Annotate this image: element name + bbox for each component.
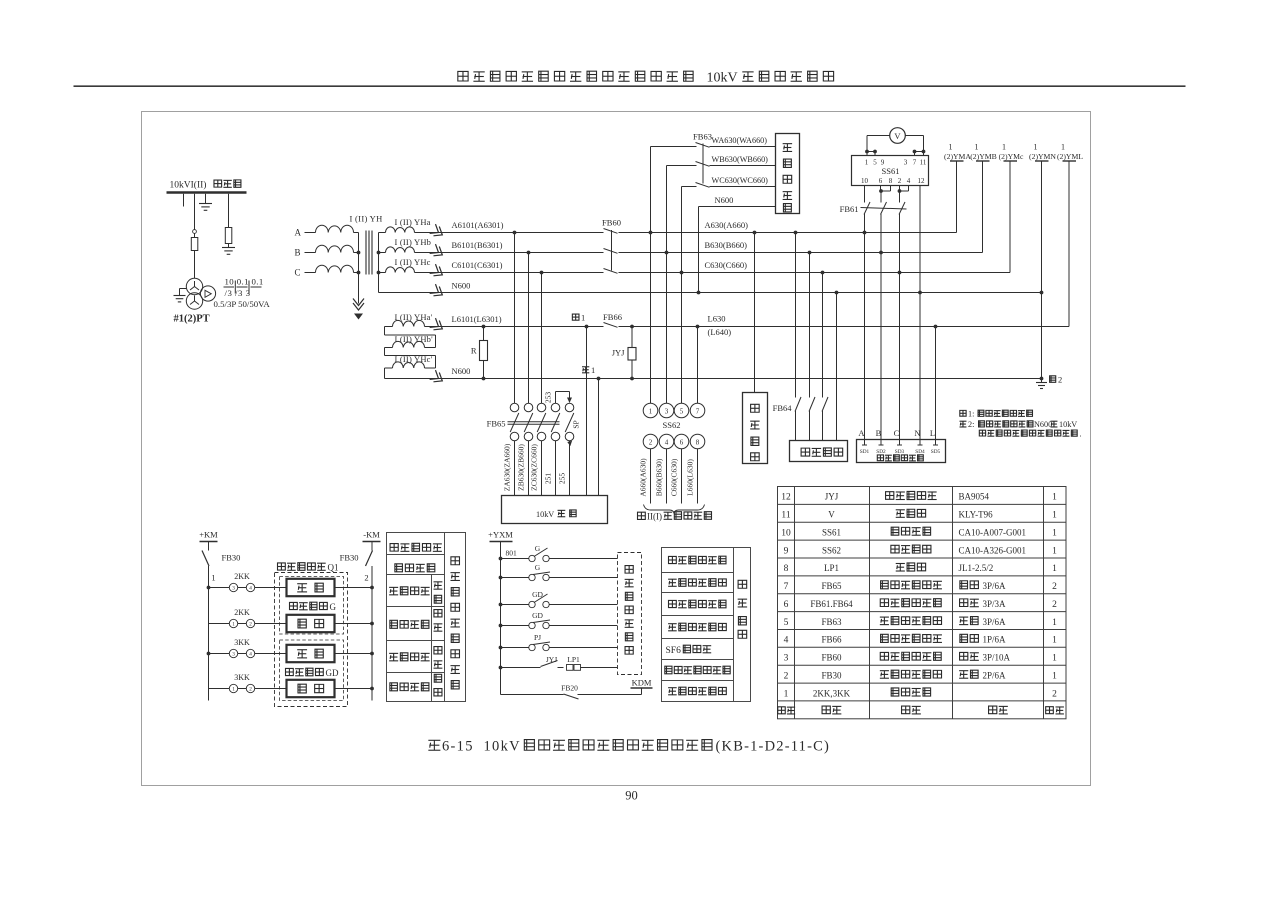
chevron C630: [430, 264, 446, 279]
wire WC630: [680, 187, 776, 275]
svg-text:3KK: 3KK: [234, 638, 250, 647]
svg-text:A660(A630): A660(A630): [639, 458, 648, 497]
svg-text:SD1: SD1: [860, 449, 870, 455]
jumper 253 over contacts: [556, 392, 573, 404]
svg-text:2KK: 2KK: [234, 608, 250, 617]
table header row: [778, 706, 1064, 714]
table row 7 FB65: [784, 581, 1058, 592]
residual winding series link b-c: [385, 348, 436, 369]
ground at PT: [174, 289, 187, 302]
wire to -KM y688: [335, 687, 374, 691]
wire WA630: [649, 147, 776, 235]
svg-text:7: 7: [913, 159, 917, 167]
breaker FB65: [508, 403, 560, 441]
outgoing energy meter box 出线电度表: [776, 134, 800, 214]
note marker 注1 at L630: [572, 313, 585, 323]
note 2 text line2: [979, 429, 1081, 438]
control legend table: [387, 533, 466, 702]
bus stub: [183, 194, 185, 207]
svg-text:A: A: [858, 428, 865, 438]
ground under fuse FU2: [222, 244, 235, 255]
table row 8 LP1: [784, 563, 1058, 574]
svg-text:8: 8: [784, 564, 789, 574]
wire PT primary drop: [194, 194, 196, 230]
wire 251: [555, 441, 557, 496]
svg-text:KDM: KDM: [632, 678, 652, 688]
legend text 隔离开关合位: [669, 556, 677, 563]
svg-text:FB65: FB65: [821, 581, 842, 591]
brace to II segment bus PT: [644, 505, 705, 514]
wire 255: [569, 441, 571, 496]
coil box 分闸 y623: [287, 615, 335, 632]
svg-text:JYJ: JYJ: [825, 492, 839, 502]
primary star point wire: [357, 233, 361, 304]
transformer secondary winding a: [379, 227, 415, 233]
wire SS61 pin6 to SD2: [879, 214, 883, 440]
wire A630 to FB65: [513, 231, 517, 404]
svg-text:B6101(B6301): B6101(B6301): [452, 240, 503, 250]
drawing frame: [142, 112, 1091, 786]
svg-text:SD4: SD4: [915, 449, 925, 455]
voltmeter wiring left: [865, 136, 890, 156]
dashed boundary three-position switch Q1: [275, 573, 348, 707]
10kV busbar: [167, 191, 247, 194]
svg-text:-KM: -KM: [363, 530, 380, 540]
legend text 控制小母线: [390, 544, 398, 552]
svg-text:3KK: 3KK: [234, 673, 250, 682]
legend vertical 隔离开关: [434, 582, 443, 631]
sync circuit box 同期回路: [743, 393, 768, 464]
breaker FB30 right: [366, 542, 373, 701]
wire C630 to FB65: [540, 271, 544, 404]
junction L630 to auto-switching: [585, 325, 589, 329]
breaker FB66: [604, 322, 619, 331]
svg-text:1: 1: [1002, 143, 1006, 152]
svg-text:801: 801: [506, 549, 518, 558]
svg-text:WC630(WC660): WC630(WC660): [712, 176, 769, 185]
one-point earthing ground: [1036, 379, 1047, 389]
chevron L630: [430, 318, 446, 333]
svg-text:1: 1: [232, 687, 235, 693]
svg-text:4: 4: [249, 652, 252, 658]
svg-text:FB60: FB60: [821, 653, 842, 663]
legend text 接地开关分位: [668, 624, 677, 631]
wire to -KM y653: [335, 652, 374, 656]
svg-text:(2)YMc: (2)YMc: [999, 152, 1024, 161]
signal bus wire: [500, 542, 502, 695]
svg-text:I (II) YHa: I (II) YHa: [395, 217, 431, 227]
legend text 就地合闸 row1: [389, 587, 398, 594]
svg-text:FB61: FB61: [840, 204, 859, 214]
svg-text:V: V: [894, 131, 901, 141]
contact G closed y577: [499, 563, 618, 581]
wire to -KM y623: [335, 622, 374, 626]
note 2 text line1: [959, 420, 1077, 429]
svg-text:B: B: [876, 428, 882, 438]
svg-text:10kV: 10kV: [1059, 420, 1077, 429]
svg-text:WA630(WA660): WA630(WA660): [712, 136, 768, 145]
svg-text:6: 6: [784, 600, 789, 610]
contact G open y558: [499, 544, 618, 562]
wire B660 to II bus PT: [666, 449, 668, 504]
junction JYJ top: [630, 325, 634, 329]
wire ZA630: [514, 441, 516, 496]
svg-text:6: 6: [680, 439, 684, 447]
svg-text:L6101(L6301): L6101(L6301): [452, 314, 502, 324]
svg-text:2: 2: [649, 439, 653, 447]
wire L660 to II bus PT: [697, 449, 699, 504]
legend text SF6气压低: [666, 645, 712, 656]
svg-text:10: 10: [861, 177, 869, 185]
table row 6 FB61.FB64: [784, 599, 1058, 610]
PT ratio label: [214, 277, 271, 310]
header rule: [74, 85, 1186, 87]
svg-text:WB630(WB660): WB630(WB660): [712, 155, 769, 164]
voltage test terminal box 电压试验端子: [857, 440, 946, 463]
svg-text:7: 7: [696, 408, 700, 416]
svg-text:9: 9: [784, 546, 789, 556]
svg-text:FB66: FB66: [603, 312, 622, 322]
table row 4 FB66: [784, 634, 1058, 645]
svg-text:V: V: [828, 510, 835, 520]
transformer secondary winding c: [379, 267, 415, 273]
svg-text:FB30: FB30: [340, 553, 359, 563]
bus +YXM: [488, 530, 513, 542]
PT isolating contact: [193, 230, 197, 234]
svg-text:SP: SP: [572, 420, 581, 428]
svg-text:SS62: SS62: [663, 420, 681, 430]
svg-text:SS62: SS62: [822, 545, 841, 555]
coil box 合闸 y587: [287, 579, 335, 596]
svg-text:0.5/3P 50/50VA: 0.5/3P 50/50VA: [214, 299, 271, 309]
svg-text:PJ: PJ: [534, 633, 541, 642]
table row 1 2KK,3KK: [784, 688, 1058, 699]
svg-text:2: 2: [364, 573, 368, 583]
svg-text:N600: N600: [715, 195, 734, 205]
svg-text:+YXM: +YXM: [488, 530, 513, 540]
svg-text:2: 2: [898, 177, 902, 185]
svg-text:2KK,3KK: 2KK,3KK: [813, 688, 851, 698]
note marker 注2 at ground: [1050, 375, 1063, 385]
wire C660 to II bus PT: [681, 449, 683, 504]
svg-text:3: 3: [784, 654, 789, 664]
svg-text:3: 3: [232, 586, 235, 592]
wire to -KM y587: [335, 586, 374, 590]
svg-text:(KB-1-D2-11-C): (KB-1-D2-11-C): [716, 739, 831, 755]
svg-text:FB66: FB66: [821, 635, 842, 645]
transformer secondary winding b: [379, 247, 415, 253]
chevron N600 residual: [430, 370, 446, 385]
svg-text:10kVI(II): 10kVI(II): [170, 180, 207, 191]
table row 10 SS61: [781, 527, 1057, 538]
svg-text:2: 2: [1052, 582, 1057, 592]
legend text 就地合闸 row3: [389, 653, 398, 660]
wire label 253: [544, 392, 553, 404]
svg-text:SF6: SF6: [666, 646, 682, 656]
svg-text:8: 8: [889, 177, 893, 185]
terminal 1(2)YMA: [944, 143, 971, 233]
label 至II(I)段母线压变: [638, 512, 712, 522]
svg-text:(2)YMA: (2)YMA: [944, 152, 971, 161]
legend text 就地分闸 row4: [390, 683, 398, 691]
svg-text:1: 1: [975, 143, 979, 152]
svg-text:(2)YMB: (2)YMB: [970, 152, 996, 161]
junction YMN at N600 residual: [1040, 377, 1044, 381]
svg-text:4: 4: [665, 439, 669, 447]
switch 3KK contacts row y688: [209, 673, 287, 693]
svg-text:12: 12: [781, 493, 791, 503]
svg-text:C6101(C6301): C6101(C6301): [452, 260, 503, 270]
voltmeter wiring right: [905, 136, 925, 156]
wire SS61 pin10 to SD1: [863, 214, 867, 440]
svg-text:N: N: [914, 428, 920, 438]
svg-text:Q1: Q1: [328, 563, 339, 573]
wire label ZC630(ZC660): [530, 444, 539, 491]
svg-text:G: G: [535, 563, 541, 572]
svg-text:11: 11: [781, 511, 790, 521]
label earth switch GD: [286, 668, 339, 678]
svg-text:LP1: LP1: [824, 563, 839, 573]
table row 3 FB60: [784, 652, 1058, 663]
dashed box 至公共测控装置: [618, 553, 642, 675]
svg-text:3: 3: [904, 159, 908, 167]
svg-text:FB20: FB20: [561, 684, 578, 693]
bus +KM: [199, 530, 218, 542]
voltage relay JYJ: [628, 327, 636, 381]
primary neutral ground arrow: [354, 314, 363, 320]
legend text 空气开关跳闸: [668, 688, 677, 695]
svg-text:LP1: LP1: [567, 655, 580, 664]
svg-text:10kV: 10kV: [484, 739, 521, 755]
svg-text:L630: L630: [708, 314, 726, 324]
junction N600res to auto-switching: [597, 377, 601, 381]
svg-text:10kV: 10kV: [536, 510, 554, 519]
wire B630 to FB64: [808, 251, 812, 441]
svg-text:3P/6A: 3P/6A: [983, 617, 1007, 627]
legend vertical 接地开关: [434, 647, 443, 696]
residual winding end to N600': [384, 368, 386, 379]
transformer core: [366, 231, 372, 275]
wire N600: [379, 292, 1042, 294]
svg-text:FB30: FB30: [222, 553, 241, 563]
voltmeter V: [890, 128, 906, 144]
svg-text:1: 1: [1034, 143, 1038, 152]
svg-text:2: 2: [249, 687, 252, 693]
svg-text:1: 1: [232, 622, 235, 628]
wire label ZB630(ZB660): [517, 444, 526, 491]
switch 3KK contacts row y653: [209, 638, 287, 658]
svg-text:10kV: 10kV: [707, 71, 738, 86]
page header title: [458, 71, 834, 86]
svg-text:10 0.1 0.1: 10 0.1 0.1: [225, 277, 264, 287]
svg-text:3: 3: [665, 408, 669, 416]
svg-text:1: 1: [784, 689, 789, 699]
svg-text:1: 1: [949, 143, 953, 152]
wire SS61 pin2 to SD3: [898, 214, 902, 440]
transformer primary winding C: [305, 265, 359, 272]
SS61 bottom pin numbers: [861, 177, 925, 185]
svg-text:C660(C630): C660(C630): [670, 458, 679, 496]
svg-text:1: 1: [581, 313, 585, 323]
svg-text:B: B: [295, 248, 301, 258]
svg-text:1: 1: [1052, 654, 1057, 664]
svg-text:1: 1: [1052, 618, 1057, 628]
svg-text:G: G: [535, 544, 541, 553]
svg-text:(2)YML: (2)YML: [1057, 152, 1083, 161]
svg-text:6: 6: [879, 177, 883, 185]
svg-text:BA9054: BA9054: [959, 492, 990, 502]
contact GD closed y625: [499, 611, 618, 629]
svg-text:3P/3A: 3P/3A: [983, 599, 1007, 609]
svg-text:1: 1: [1052, 636, 1057, 646]
terminal 1(2)YML: [1057, 143, 1083, 327]
svg-text:N600: N600: [1034, 420, 1052, 429]
table row 2 FB30: [784, 670, 1058, 681]
svg-text:I (II) YH: I (II) YH: [350, 214, 383, 224]
svg-text:12: 12: [918, 177, 926, 185]
dashed boundary isolator G: [280, 577, 344, 635]
contact GD open y604: [499, 590, 618, 608]
svg-text:CA10-A326-G001: CA10-A326-G001: [959, 545, 1027, 555]
svg-text:1: 1: [211, 573, 215, 583]
wire label 255: [558, 473, 567, 485]
selector SS62 contacts lower: [643, 434, 705, 449]
svg-text:GD: GD: [532, 611, 543, 620]
residual winding b': [385, 341, 436, 347]
svg-text:11: 11: [920, 159, 927, 167]
legend text 零序过电压信号: [665, 666, 672, 674]
legend text 空气开关: [395, 564, 403, 572]
svg-text:2:: 2:: [968, 420, 974, 429]
svg-text:1: 1: [1052, 564, 1057, 574]
svg-text:KLY-T96: KLY-T96: [959, 510, 994, 520]
svg-text:4: 4: [784, 636, 789, 646]
svg-text:3P/10A: 3P/10A: [983, 653, 1011, 663]
svg-text:5: 5: [680, 408, 684, 416]
legend text 隔离开关分位: [668, 579, 677, 586]
svg-text:I (II) YHb: I (II) YHb: [395, 237, 432, 247]
svg-text:ZA630(ZA660): ZA630(ZA660): [503, 443, 512, 491]
wire C630 to SS62-5: [681, 273, 683, 404]
svg-text:FB61.FB64: FB61.FB64: [810, 599, 853, 609]
wire A630 to FB64: [794, 231, 798, 441]
voltage telemetry box 电压遥测: [790, 441, 848, 462]
svg-text:G: G: [330, 602, 337, 612]
svg-text:3P/6A: 3P/6A: [983, 581, 1007, 591]
table row 12 JYJ: [781, 491, 1057, 502]
svg-text:255: 255: [558, 473, 567, 485]
svg-text:FB30: FB30: [821, 670, 842, 680]
svg-text:1:: 1:: [968, 410, 974, 419]
primary neutral chevron: [353, 299, 364, 311]
three-position switch label 三工位开关Q1: [278, 563, 339, 573]
svg-text:ZB630(ZB660): ZB630(ZB660): [517, 444, 526, 491]
breaker FB60: [604, 228, 619, 277]
wire SS61 pin12 to SD4: [918, 186, 922, 440]
svg-text:L660(L630): L660(L630): [686, 459, 695, 496]
table row 11 V: [781, 509, 1057, 520]
wire A630: [415, 232, 957, 234]
legend vertical 三工位开关控制回路: [450, 557, 459, 689]
SS61 pins 6-8 link: [879, 186, 890, 203]
legend text 就地分闸 row2: [390, 620, 398, 628]
wire C630 to FB64: [821, 271, 825, 441]
selector switch SS61 box: [852, 156, 929, 186]
wire label C660(C630): [670, 458, 679, 496]
residual winding a': [385, 320, 425, 326]
wire ZC630: [541, 441, 543, 496]
coil box 合闸 y653: [287, 645, 335, 662]
svg-text:FB63: FB63: [693, 132, 712, 142]
chevron B630: [430, 244, 446, 259]
trip wire FB20: [501, 688, 642, 699]
label isolator G: [290, 602, 337, 612]
svg-text:CA10-A007-G001: CA10-A007-G001: [959, 527, 1027, 537]
wire N600 to telemetry: [835, 291, 839, 441]
breaker FB30 left: [202, 542, 209, 701]
svg-text:SS61: SS61: [822, 527, 841, 537]
svg-text:ZC630(ZC660): ZC630(ZC660): [530, 444, 539, 491]
svg-text:.: .: [1080, 429, 1082, 438]
coil box 分闸 y688: [287, 680, 335, 697]
selector SS62 contacts upper: [643, 403, 705, 418]
svg-text:1: 1: [1052, 493, 1057, 503]
note 1 text: [960, 410, 1033, 419]
svg-text:B630(B660): B630(B660): [705, 240, 748, 250]
wire L630 to SS62-7: [696, 325, 700, 404]
svg-text:II(I): II(I): [647, 512, 662, 522]
wire WB630: [665, 166, 776, 255]
svg-text:#1(2)PT: #1(2)PT: [174, 314, 210, 325]
svg-text:L: L: [930, 428, 935, 438]
wire L630: [425, 326, 1070, 328]
junction YMN at N600: [1040, 291, 1044, 295]
wire C630: [415, 272, 1011, 274]
svg-text:1: 1: [1052, 511, 1057, 521]
svg-text:R: R: [471, 346, 477, 356]
signal legend table: [662, 548, 751, 702]
svg-text:JYJ: JYJ: [546, 655, 557, 664]
junction +KM row3: [207, 652, 211, 656]
svg-text:2KK: 2KK: [234, 572, 250, 581]
svg-text:/3 /3 3: /3 /3 3: [225, 288, 251, 298]
svg-text:C630(C660): C630(C660): [705, 260, 748, 270]
wire label L660(L630): [686, 459, 695, 496]
svg-text:1: 1: [1061, 143, 1065, 152]
svg-text:1: 1: [865, 159, 869, 167]
svg-text:A630(A660): A630(A660): [705, 220, 749, 230]
note marker 注1 at N600 residual: [582, 365, 595, 375]
terminal 1(2)YMN: [1029, 143, 1056, 379]
wire A630 to SS62-1: [650, 233, 652, 404]
bus -KM: [363, 530, 381, 542]
svg-text:A6101(A6301): A6101(A6301): [452, 220, 504, 230]
fuse FU2: [225, 228, 232, 244]
svg-text:251: 251: [544, 473, 553, 485]
svg-text:1: 1: [649, 408, 653, 416]
svg-text:A: A: [295, 228, 302, 238]
SS61 top pin numbers: [865, 159, 927, 167]
svg-text:(L640): (L640): [708, 327, 732, 337]
svg-text:6-15: 6-15: [442, 739, 474, 755]
terminal 1(2)YMc: [999, 143, 1024, 273]
svg-text:JL1-2.5/2: JL1-2.5/2: [959, 563, 994, 573]
svg-text:2P/6A: 2P/6A: [983, 670, 1007, 680]
svg-text:253: 253: [544, 392, 553, 404]
svg-text:2: 2: [784, 671, 789, 681]
junction +KM row1: [207, 586, 211, 590]
legend text 接地开关合位: [669, 600, 677, 607]
